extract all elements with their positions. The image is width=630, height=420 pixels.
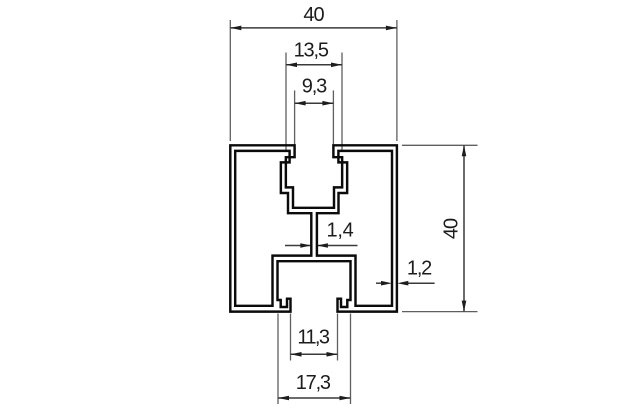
profile outer contour	[230, 145, 397, 311]
profile left cavity	[235, 151, 311, 306]
dimension 40 right	[441, 145, 467, 311]
svg-text:9,3: 9,3	[302, 75, 327, 97]
svg-text:1,2: 1,2	[407, 258, 432, 280]
extension lines dim 40 top	[230, 20, 397, 141]
dimension 11,3	[291, 327, 338, 357]
extension lines dim 11,3	[291, 314, 338, 361]
svg-text:11,3: 11,3	[297, 327, 330, 349]
dimension 40 top	[230, 4, 397, 30]
dimension 1,2 (wall)	[376, 258, 435, 286]
svg-text:40: 40	[303, 4, 324, 26]
dimension 9,3	[295, 75, 334, 105]
svg-text:1,4: 1,4	[327, 219, 354, 241]
svg-text:17,3: 17,3	[296, 372, 331, 394]
svg-text:13,5: 13,5	[294, 39, 329, 61]
extension lines dim 13,5	[286, 53, 342, 151]
extension lines dim 9,3	[295, 90, 334, 154]
extension lines dim 17,3	[278, 314, 351, 405]
svg-text:40: 40	[441, 218, 463, 239]
profile right cavity	[317, 151, 392, 306]
dimension 17,3	[278, 372, 351, 401]
dimension 13,5	[286, 39, 342, 67]
dimension 1,4 (web)	[285, 219, 358, 247]
extension lines dim 40 right	[402, 145, 478, 311]
